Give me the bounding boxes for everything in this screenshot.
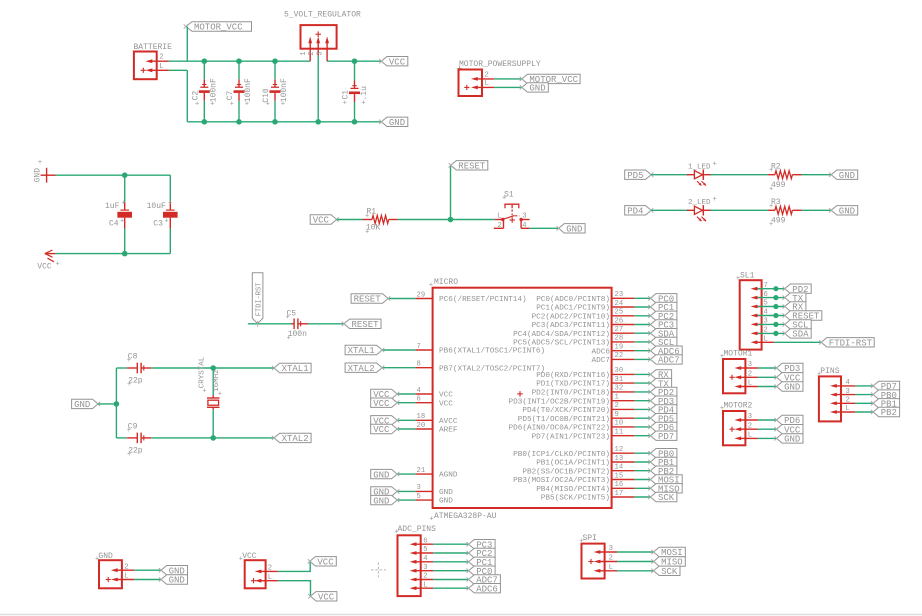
svg-text:23: 23 (615, 291, 624, 299)
svg-text:+: + (361, 100, 365, 108)
svg-text:PB3(MOSI/OC2A/PCINT3): PB3(MOSI/OC2A/PCINT3) (513, 477, 610, 485)
svg-text:FTDI-RST: FTDI-RST (829, 339, 873, 349)
svg-text:C7: C7 (226, 91, 235, 101)
svg-text:XTAL1: XTAL1 (282, 364, 309, 374)
svg-text:12: 12 (615, 446, 624, 454)
svg-text:GND: GND (169, 576, 185, 586)
svg-text:16MHz: 16MHz (213, 369, 221, 392)
svg-text:+: + (202, 388, 206, 396)
svg-text:3: 3 (423, 564, 427, 572)
svg-text:RESET: RESET (352, 320, 380, 330)
svg-text:2: 2 (485, 72, 489, 80)
svg-text:5_VOLT_REGULATOR: 5_VOLT_REGULATOR (284, 11, 361, 20)
svg-text:PB0(ICP1/CLKO/PCINT0): PB0(ICP1/CLKO/PCINT0) (513, 451, 610, 459)
svg-text:ADC7: ADC7 (658, 356, 680, 366)
svg-text:PC3(ADC3/PCINT11): PC3(ADC3/PCINT11) (532, 322, 610, 330)
svg-text:SPI: SPI (583, 534, 597, 543)
svg-text:100nF: 100nF (244, 78, 253, 102)
svg-text:MICRO: MICRO (434, 278, 458, 287)
svg-text:GND: GND (439, 489, 453, 497)
svg-text:SDA: SDA (792, 330, 809, 340)
svg-text:4: 4 (522, 222, 526, 230)
svg-text:9: 9 (615, 411, 619, 419)
svg-text:4: 4 (417, 387, 421, 395)
svg-text:5: 5 (417, 493, 421, 501)
svg-text:2: 2 (609, 555, 613, 563)
svg-text:GND: GND (373, 496, 389, 506)
svg-text:VCC: VCC (439, 392, 453, 400)
svg-text:GND: GND (784, 383, 800, 393)
svg-text:PD6(AIN0/OC0A/PCINT22): PD6(AIN0/OC0A/PCINT22) (509, 425, 611, 433)
svg-text:+: + (127, 427, 131, 435)
svg-text:2: 2 (748, 422, 752, 430)
svg-text:MOTOR_VCC: MOTOR_VCC (194, 23, 243, 33)
svg-text:2: 2 (846, 397, 850, 405)
svg-text:5: 5 (423, 546, 427, 554)
svg-text:100nF: 100nF (280, 78, 289, 102)
svg-text:L: L (498, 212, 502, 220)
svg-text:L: L (159, 63, 163, 71)
svg-text:3: 3 (748, 361, 752, 369)
svg-text:+: + (266, 100, 270, 108)
svg-text:+: + (286, 314, 290, 322)
svg-text:18: 18 (417, 413, 426, 421)
svg-text:3: 3 (317, 51, 325, 55)
svg-text:.1u: .1u (360, 86, 369, 101)
svg-text:3: 3 (609, 545, 613, 553)
svg-text:L: L (124, 573, 128, 581)
svg-text:SL1: SL1 (740, 272, 755, 281)
svg-text:PD4: PD4 (627, 207, 643, 217)
svg-text:25: 25 (615, 309, 624, 317)
svg-text:+: + (38, 159, 42, 167)
svg-text:GND: GND (373, 470, 389, 480)
svg-text:24: 24 (615, 300, 624, 308)
svg-text:22: 22 (615, 352, 624, 360)
svg-text:ADC6: ADC6 (476, 584, 498, 594)
svg-text:VCC: VCC (317, 558, 334, 568)
svg-text:+: + (56, 261, 60, 269)
svg-text:20: 20 (417, 422, 426, 430)
svg-text:30: 30 (615, 367, 624, 375)
svg-text:L: L (748, 432, 752, 440)
svg-text:+: + (502, 195, 506, 203)
svg-text:PB6(XTAL1/TOSC1/PCINT6): PB6(XTAL1/TOSC1/PCINT6) (439, 348, 545, 356)
svg-text:+: + (245, 100, 249, 108)
svg-text:29: 29 (417, 291, 426, 299)
svg-text:PB1(OC1A/PCINT1): PB1(OC1A/PCINT1) (536, 460, 610, 468)
svg-text:1: 1 (615, 394, 619, 402)
svg-text:PD7: PD7 (658, 432, 674, 442)
svg-text:GND: GND (34, 168, 43, 183)
svg-text:GND: GND (389, 118, 405, 128)
svg-text:2: 2 (748, 371, 752, 379)
svg-text:7: 7 (417, 343, 421, 351)
svg-text:VCC: VCC (373, 399, 390, 409)
svg-text:3: 3 (846, 388, 850, 396)
svg-text:PD4(T0/XCK/PCINT20): PD4(T0/XCK/PCINT20) (522, 407, 610, 415)
svg-text:8: 8 (417, 361, 421, 369)
svg-text:+: + (195, 100, 199, 108)
svg-text:2: 2 (124, 563, 128, 571)
svg-text:+: + (122, 200, 126, 208)
svg-text:2_LED: 2_LED (688, 199, 711, 207)
svg-text:SCK: SCK (658, 493, 675, 503)
svg-text:+: + (343, 100, 347, 108)
svg-text:PD3(INT1/OC2B/PCINT19): PD3(INT1/OC2B/PCINT19) (509, 398, 611, 406)
svg-text:32: 32 (615, 385, 624, 393)
svg-text:RESET: RESET (354, 295, 382, 305)
svg-text:31: 31 (615, 376, 624, 384)
svg-text:+: + (239, 555, 243, 563)
svg-text:PC1(ADC1/PCINT9): PC1(ADC1/PCINT9) (536, 305, 610, 313)
svg-text:VCC: VCC (373, 425, 390, 435)
svg-text:PINS: PINS (820, 367, 839, 376)
svg-text:3: 3 (417, 484, 421, 492)
svg-text:2: 2 (159, 54, 163, 62)
svg-text:2: 2 (308, 51, 316, 55)
svg-text:ADC6: ADC6 (592, 348, 611, 356)
svg-text:GND: GND (74, 400, 90, 410)
svg-text:C2: C2 (192, 91, 201, 101)
svg-text:PC2(ADC2/PCINT10): PC2(ADC2/PCINT10) (532, 313, 610, 321)
svg-text:PC4(ADC4/SDA/PCINT12): PC4(ADC4/SDA/PCINT12) (513, 331, 610, 339)
svg-text:+: + (210, 100, 214, 108)
svg-text:4: 4 (846, 379, 850, 387)
svg-text:15: 15 (615, 472, 624, 480)
svg-text:XTAL2: XTAL2 (348, 364, 375, 374)
svg-text:AVCC: AVCC (439, 418, 458, 426)
svg-text:+: + (713, 160, 717, 168)
svg-text:PD5(T1/OC0B/PCINT21): PD5(T1/OC0B/PCINT21) (518, 416, 610, 424)
svg-text:PB2: PB2 (881, 408, 897, 418)
svg-text:L: L (609, 564, 613, 572)
svg-text:2: 2 (268, 565, 272, 573)
svg-text:7: 7 (764, 282, 768, 290)
svg-text:+: + (230, 100, 234, 108)
svg-text:+: + (281, 100, 285, 108)
svg-text:1uF: 1uF (105, 202, 120, 211)
svg-text:+: + (218, 391, 222, 399)
svg-text:PB7(XTAL2/TOSC2/PCINT7): PB7(XTAL2/TOSC2/PCINT7) (439, 365, 545, 373)
svg-text:XTAL1: XTAL1 (348, 346, 375, 356)
svg-text:PC6(/RESET/PCINT14): PC6(/RESET/PCINT14) (439, 296, 527, 304)
svg-text:27: 27 (615, 326, 624, 334)
svg-text:3: 3 (522, 212, 526, 220)
svg-text:+: + (769, 221, 773, 229)
svg-text:+: + (120, 218, 124, 226)
svg-text:AGND: AGND (439, 472, 458, 480)
svg-text:SCK: SCK (661, 567, 678, 577)
svg-text:C3: C3 (153, 220, 163, 229)
svg-text:CRYSTAL: CRYSTAL (199, 356, 207, 388)
svg-text:GND: GND (839, 171, 855, 181)
svg-text:GND: GND (566, 225, 582, 235)
svg-text:AREF: AREF (439, 427, 458, 435)
svg-text:PB2(SS/OC1B/PCINT2): PB2(SS/OC1B/PCINT2) (522, 468, 610, 476)
svg-text:GND: GND (784, 435, 800, 445)
svg-text:2: 2 (615, 402, 619, 410)
svg-text:10uF: 10uF (147, 202, 166, 211)
svg-text:MOTOR_POWERSUPPLY: MOTOR_POWERSUPPLY (459, 60, 541, 69)
svg-text:ADC7: ADC7 (592, 357, 611, 365)
svg-text:MOTOR2: MOTOR2 (724, 402, 753, 411)
svg-text:VCC: VCC (37, 263, 52, 272)
svg-text:PD0(RXD/PCINT16): PD0(RXD/PCINT16) (536, 372, 610, 380)
svg-text:GND: GND (529, 84, 545, 94)
svg-text:13: 13 (615, 455, 624, 463)
svg-text:+: + (287, 335, 291, 343)
svg-text:+: + (429, 282, 433, 290)
svg-text:L: L (846, 405, 850, 413)
svg-text:C1: C1 (342, 90, 351, 100)
svg-text:+: + (713, 196, 717, 204)
svg-text:1_LED: 1_LED (688, 164, 711, 172)
svg-text:17: 17 (615, 490, 624, 498)
svg-text:16: 16 (615, 481, 624, 489)
svg-text:2: 2 (764, 327, 768, 335)
svg-text:+: + (168, 200, 172, 208)
svg-text:2: 2 (498, 222, 502, 230)
svg-text:100nF: 100nF (209, 78, 218, 102)
svg-text:2: 2 (423, 573, 427, 581)
svg-text:L: L (764, 336, 768, 344)
svg-text:L: L (748, 380, 752, 388)
svg-text:+: + (429, 516, 433, 524)
svg-text:+: + (165, 218, 169, 226)
svg-text:11: 11 (615, 429, 624, 437)
svg-text:1: 1 (300, 51, 308, 55)
svg-text:PC5(ADC5/SCL/PCINT13): PC5(ADC5/SCL/PCINT13) (513, 340, 610, 348)
svg-text:6: 6 (417, 396, 421, 404)
svg-text:PD5: PD5 (627, 171, 643, 181)
svg-text:+: + (365, 213, 369, 221)
svg-text:L: L (423, 581, 427, 589)
svg-text:+: + (769, 167, 773, 175)
svg-text:PC0(ADC0/PCINT8): PC0(ADC0/PCINT8) (536, 296, 610, 304)
svg-text:3: 3 (764, 318, 768, 326)
svg-text:10: 10 (615, 420, 624, 428)
svg-text:L: L (268, 574, 272, 582)
svg-text:PB4(MISO/PCINT4): PB4(MISO/PCINT4) (536, 486, 610, 494)
svg-text:3: 3 (748, 413, 752, 421)
svg-text:19: 19 (615, 344, 624, 352)
svg-text:L: L (485, 80, 489, 88)
svg-text:VCC: VCC (313, 216, 330, 226)
svg-text:ATMEGA328P-AU: ATMEGA328P-AU (434, 512, 497, 521)
svg-text:+: + (769, 186, 773, 194)
svg-text:PD1(TXD/PCINT17): PD1(TXD/PCINT17) (536, 381, 610, 389)
svg-text:+: + (365, 229, 369, 237)
svg-text:VCC: VCC (439, 400, 453, 408)
svg-text:PB5(SCK/PCINT5): PB5(SCK/PCINT5) (541, 495, 610, 503)
svg-text:+: + (127, 357, 131, 365)
svg-text:+: + (769, 203, 773, 211)
svg-text:26: 26 (615, 317, 624, 325)
svg-text:4: 4 (764, 309, 768, 317)
svg-text:C4: C4 (109, 220, 119, 229)
svg-text:MOTOR1: MOTOR1 (724, 350, 753, 359)
svg-text:GND: GND (839, 207, 855, 217)
svg-text:GND: GND (439, 498, 453, 506)
svg-text:VCC: VCC (389, 57, 406, 67)
svg-text:6: 6 (423, 537, 427, 545)
svg-text:BATTERIE: BATTERIE (134, 43, 173, 52)
svg-text:+: + (127, 451, 131, 459)
svg-text:FTDI-RST: FTDI-RST (255, 283, 263, 317)
svg-text:5: 5 (764, 300, 768, 308)
svg-text:6: 6 (764, 291, 768, 299)
svg-text:XTAL2: XTAL2 (282, 434, 309, 444)
svg-text:ADC_PINS: ADC_PINS (398, 525, 437, 534)
svg-text:VCC: VCC (318, 593, 335, 603)
svg-text:4: 4 (423, 555, 427, 563)
svg-text:RESET: RESET (458, 162, 486, 172)
svg-text:PD7(AIN1/PCINT23): PD7(AIN1/PCINT23) (532, 433, 610, 441)
svg-text:+: + (127, 381, 131, 389)
svg-text:14: 14 (615, 464, 624, 472)
svg-text:28: 28 (615, 335, 624, 343)
svg-text:21: 21 (417, 467, 426, 475)
svg-text:PD2(INT0/PCINT18): PD2(INT0/PCINT18) (532, 390, 610, 398)
